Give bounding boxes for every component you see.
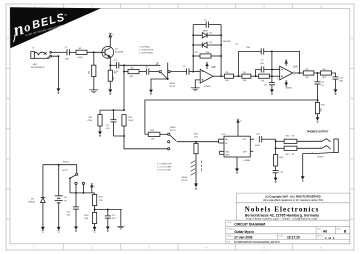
svg-text:Date:: Date: [227,235,233,238]
svg-text:Time:: Time: [279,236,285,238]
svg-text:7: 7 [214,74,215,76]
node feedback rail tap [192,71,194,73]
node SW1a pole [69,177,71,179]
svg-text:C: C [7,158,9,161]
phones jack BU2 body [334,139,338,153]
wire to R6 [124,71,128,73]
svg-text:PHONES OUTPUT: PHONES OUTPUT [307,130,329,133]
resistor R19 [93,193,97,210]
svg-text:Nobels Electronics: Nobels Electronics [245,205,319,213]
ground (R4) [109,90,111,95]
node C9 tap [317,72,319,74]
wire feedback up [239,51,300,76]
op-amp U1A [280,66,293,80]
svg-text:U1A: U1A [293,65,298,68]
svg-text:470K: 470K [88,120,93,122]
node output rail top [275,140,277,142]
switch SW1a arm [70,175,75,178]
wire R8 to R9 [234,75,242,77]
svg-text:File:: File: [227,242,232,244]
power +9V (U2) [237,119,239,136]
svg-text:1M: 1M [89,71,91,74]
svg-text:Title:: Title: [227,221,232,224]
DC jack plus marks [74,181,82,183]
switch SW1b contact 3 [168,148,170,150]
resistor R8 [225,74,234,78]
capacitor C7 [256,66,272,76]
node long wire right [317,99,319,101]
wire switch pole row [151,79,168,90]
svg-text:1P-3T: 1P-3T [170,86,176,88]
svg-text:16:17:29: 16:17:29 [287,236,300,240]
ground (C8) [271,90,273,95]
svg-text:3. UNDEFINED: 3. UNDEFINED [139,53,154,55]
wire battery rail [43,165,77,173]
svg-text:1N4001: 1N4001 [28,202,36,204]
wire U1B + input to ground [195,80,200,88]
resistor R11 [98,110,102,132]
title block upper box [236,193,349,220]
node base junction [93,51,95,53]
svg-text:A6: A6 [323,230,327,234]
svg-text:Size:: Size: [317,228,322,230]
wire C7 rail [271,51,273,76]
svg-text:D: D [351,218,353,221]
svg-text:BU2S: BU2S [318,156,324,158]
capacitor C10 [333,77,339,90]
wire BU2 sleeve [303,153,334,177]
svg-text:10N: 10N [246,47,250,49]
capacitor C5 [146,69,148,75]
svg-text:27-Jan-2003: 27-Jan-2003 [234,236,252,240]
title block lower box [226,220,350,244]
svg-text:10U: 10U [67,215,71,217]
node C17 tap [107,209,109,211]
op-amp U1B [200,69,213,83]
ground (R10) [316,118,318,123]
feedback right rail [220,25,222,77]
capacitor C1 [67,49,69,55]
switch SW1a contact top [76,173,78,175]
wire R1 to Q1 base [87,51,105,53]
svg-text:1. NORMAL: 1. NORMAL [139,46,151,49]
svg-text:4558S: 4558S [204,86,211,88]
node R15 tap [195,141,197,143]
wire jack sleeve [52,56,59,89]
power V- (U1A) [285,80,287,86]
power +9V (rail) [91,184,93,193]
power V+ (U1A) [285,60,287,66]
resistor R7 [193,54,221,58]
svg-text:47U: 47U [106,128,110,130]
ground (U2) [236,157,238,174]
capacitor C8 [269,76,275,90]
svg-text:10K: 10K [305,77,309,79]
node C8 tap [271,75,273,77]
resistor R16 [276,139,322,143]
resistor R1 [76,50,87,54]
svg-text:10K: 10K [151,139,155,141]
svg-text:Sheet: Sheet [317,234,323,237]
resistor R13a [303,71,314,75]
wire junction to R2 [93,52,95,65]
logo swash [12,35,17,42]
wire jack tip to C1 [52,51,68,53]
svg-text:(c) Copyright 1997 - ALL RIGHT: (c) Copyright 1997 - ALL RIGHTS RESERVED [265,194,320,198]
ground (BU2 sleeve) [302,177,304,182]
diode D6 [41,165,46,228]
svg-text:2. OVERDRIVE: 2. OVERDRIVE [139,50,154,52]
node R6 row tap [123,71,125,73]
node emitter junction [109,64,111,66]
wire contact b to C3 [170,71,186,73]
label U2 pins [225,139,247,156]
capacitor C6 [261,48,264,54]
wire U1A - input loop [272,69,280,71]
svg-text:SW1a: SW1a [170,83,177,85]
svg-text:INSTR.INPUT: INSTR.INPUT [31,67,45,69]
node divider bottom [123,135,125,137]
wire emitter down [109,57,111,70]
ground (jack sleeve) [57,89,59,94]
node feedback top tap [238,75,240,77]
wire bias tap down [123,65,125,110]
ground (SW1c) [195,184,197,190]
switch SW2a contact b [168,71,170,73]
wire R11a to C10 [332,73,336,77]
svg-text:http://www.nobels.com - email:: http://www.nobels.com - email: info@nobe… [246,218,317,221]
transistor Q1 [102,46,114,58]
node D2 right [220,44,222,46]
node divider right tap [123,109,125,111]
svg-text:680P: 680P [203,31,209,33]
resistor R20 [93,210,97,228]
phones jack pins [312,139,321,154]
diode D1 [193,33,221,38]
power V+ (U1B) [206,63,208,70]
svg-text:3: 3 [277,78,278,80]
pin numbers U1A [277,68,295,81]
wire R13a to R11a [314,72,321,74]
resistor R12 [259,74,270,78]
polarity marks electrolytics [72,60,316,217]
wire R9 to R12 [251,75,259,77]
capacitor C3 [187,68,189,74]
wire C1 to R1 [69,51,76,53]
node R7 left [192,55,194,57]
node R7 right [220,55,222,57]
svg-text:+: + [74,181,75,183]
resistor R6 [128,70,139,74]
phones jack BU2 tip contact [322,139,331,142]
wire U1A output [293,72,304,74]
switch SW1c wiper marks [191,161,202,176]
svg-text:1: 1 [320,146,321,148]
svg-text:10K: 10K [243,80,247,82]
DC jack contact b [82,182,84,184]
logo wordmark [8,6,71,42]
resistor R10 [315,100,319,118]
svg-text:1. POWER/OFF: 1. POWER/OFF [157,164,173,166]
wire output rail [275,139,277,152]
node rail b [82,192,84,194]
ground (C16) [75,227,77,232]
svg-text:10K: 10K [194,137,198,139]
resistor R9 [242,74,251,78]
resistor R14 [145,132,168,136]
ground (U1B +) [191,88,200,91]
capacitor C15 [273,171,279,178]
svg-text:D: D [7,218,9,221]
feedback left rail [192,25,194,72]
svg-text:B:\SPRO\MP\MYCRO\DIAGRAM_R6.SC: B:\SPRO\MP\MYCRO\DIAGRAM_R6.SCH [234,241,280,244]
svg-text:1U: 1U [321,85,324,87]
wire U1B output [213,75,224,77]
svg-text:Guitar Mycro: Guitar Mycro [234,230,254,234]
node output feedback tap [298,72,300,74]
svg-text:U1B: U1B [211,67,216,69]
svg-text:100K: 100K [77,57,83,59]
battery B1 [55,165,63,228]
svg-text:IN-: IN- [225,143,228,145]
node bias tap [123,64,125,66]
svg-text:SW1b: SW1b [182,177,189,179]
note volume positions [157,164,173,172]
pin numbers U1B [198,70,216,84]
switch SW2a contact a [159,71,161,73]
wire collector up [109,36,111,48]
svg-text:C: C [351,158,353,161]
node C7 left [255,75,257,77]
svg-text:1P-3T: 1P-3T [170,130,176,132]
svg-text:1N4148: 1N4148 [223,41,231,43]
wire pole stub up [167,63,169,79]
resistor R13 [122,115,126,136]
ground (B1) [58,227,60,232]
ground (switch pole) [150,90,152,95]
node C7 rail top [271,50,273,52]
svg-text:1M: 1M [206,52,209,54]
capacitor C14 [259,136,275,142]
svg-text:1P-2T: 1P-2T [62,170,68,172]
resistor R2 [92,65,96,76]
capacitor C17 [105,210,111,227]
svg-text:10K: 10K [85,218,89,220]
ground (R2) [89,90,98,93]
capacitor C11 [111,110,117,136]
wire R2 to ground [93,77,95,90]
DC jack stubs [76,185,83,193]
ground (C15) [274,178,276,183]
wire emitter to C2 [110,64,116,66]
node C7 rail row [271,69,273,71]
wire C3 to U1B inverting input [189,71,200,73]
ground (D6) [42,227,44,232]
node output rail bottom [275,147,277,149]
svg-text:3. HI-VOLUME: 3. HI-VOLUME [157,170,171,172]
svg-text:2. LO-VOLUME: 2. LO-VOLUME [157,167,172,169]
resistor R4 [108,70,112,81]
svg-text:56K: 56K [320,107,322,111]
switch SW1b contact 2 [168,141,170,143]
wire C5 to switch contact [149,71,159,73]
svg-text:1: 1 [294,71,295,73]
svg-text:9P-3C: 9P-3C [182,180,188,182]
svg-text:22N: 22N [65,59,69,61]
wire SW1c to ground [195,161,197,184]
node rail a [75,192,77,194]
title block copyright text [263,194,324,202]
svg-text:Rev:: Rev: [337,228,342,230]
svg-text:CIRCUIT DIAGRAM: CIRCUIT DIAGRAM [234,223,265,227]
node jack sleeve corner [57,55,59,57]
svg-text:2: 2 [320,139,321,141]
svg-text:6: 6 [198,70,199,72]
wire bias divider top [100,109,124,111]
ground (R20) [93,227,95,232]
resistor R17 [276,146,322,150]
wire long bus [145,100,318,134]
switch SW2a arm [161,72,167,78]
wire C2 to net stub [119,64,161,66]
wire SW1a pole down [70,178,95,193]
svg-text:Bernerstrasse 42, 22765 Hambur: Bernerstrasse 42, 22765 Hamburg, Germany [245,213,319,217]
svg-text:5: 5 [198,82,199,84]
node bias node [94,209,96,211]
node D1 left [192,34,194,36]
svg-text:All unspecified capacitors in: All unspecified capacitors in pF, resist… [263,198,324,202]
ground (C17) [107,227,109,232]
svg-text:10K: 10K [225,80,229,82]
svg-text:100U: 100U [255,145,260,147]
wire bias node right [95,209,122,211]
switch SW1b arm [170,135,177,141]
input jack BU1 [31,51,52,58]
svg-text:27R: 27R [99,200,103,202]
node U1B out rail [220,75,222,77]
node divider mid tap [113,109,115,111]
node D2 left [192,44,194,46]
node B1 tap [58,164,60,166]
node switch pole [167,78,169,80]
net label R5 [156,62,160,65]
TITLE BLOCK [226,193,350,244]
resistor R18 [274,152,278,171]
logo pennant [10,7,101,48]
switch SW1b contact 1 [168,133,170,135]
capacitor C9 [315,73,321,100]
svg-text:2: 2 [277,68,278,70]
svg-text:1 of 1: 1 of 1 [325,236,335,240]
wire R12 to U1A [269,75,279,77]
svg-text:BC546B: BC546B [115,52,124,54]
svg-text:SW1b: SW1b [170,127,177,129]
svg-text:2.2U: 2.2U [114,71,119,73]
ground (C10) [334,90,336,95]
diode D2 [193,42,221,47]
wire divider bottom [114,136,168,149]
DC jack contact a [75,182,77,184]
svg-text:GND: GND [225,154,230,156]
svg-text:10N: 10N [339,80,343,82]
capacitor C16 [73,193,79,227]
svg-text:GND: GND [225,151,230,153]
IC U2 power amp box [219,136,255,157]
svg-text:SW1a: SW1a [63,161,70,163]
resistor R11a [321,71,332,75]
wire R4 to ground [109,81,111,90]
svg-text:+: + [81,181,82,183]
wire bias stub end [120,210,122,227]
note text positions [139,46,154,55]
svg-text:100K: 100K [128,120,133,122]
power +9V (Q1 collector) [109,33,112,37]
wire SW1b common [177,141,219,143]
svg-text:4558S: 4558S [286,87,293,89]
ground (R11) [99,132,101,137]
capacitor C4 [193,22,221,28]
svg-text:LM386: LM386 [244,160,251,162]
capacitor C2 [116,62,118,68]
wire R6 to C5 [139,71,146,73]
wire feedback vertical [298,51,300,73]
resistor R15 [194,142,198,161]
phones jack BU2 ring contact [322,146,331,149]
svg-text:47U: 47U [112,218,116,220]
node D1 right [220,34,222,36]
